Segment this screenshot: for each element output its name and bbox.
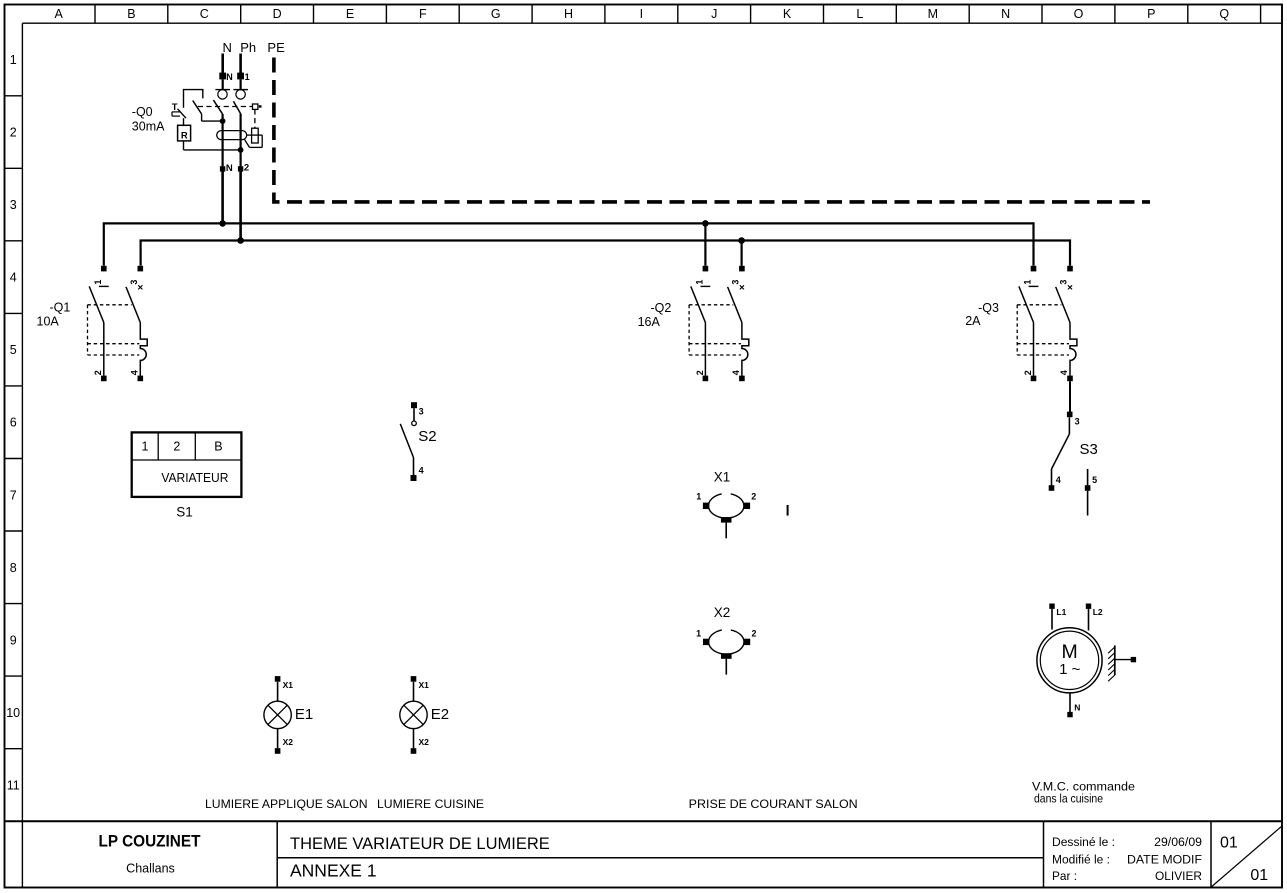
junction Ph feed on phase bus bbox=[237, 237, 244, 244]
wire -Q3 pole 1 lower bbox=[1033, 323, 1035, 376]
terminal 2 of X1 bbox=[744, 492, 757, 509]
terminal 4 of S3 bbox=[1049, 475, 1061, 491]
terminal 1 of -Q2 bbox=[694, 266, 708, 285]
svg-text:H: H bbox=[564, 7, 573, 21]
svg-text:S2: S2 bbox=[418, 428, 436, 445]
wire motor L2 stub bbox=[1088, 609, 1090, 631]
wire X1 earth stub bbox=[725, 523, 727, 539]
-Q2 pole 2 x mark bbox=[740, 285, 744, 289]
terminal 2 of -Q3 bbox=[1023, 370, 1036, 381]
wire motor L1 stub bbox=[1051, 609, 1053, 630]
svg-text:1: 1 bbox=[245, 72, 250, 82]
terminal L2 of motor bbox=[1086, 604, 1103, 618]
svg-text:N: N bbox=[226, 72, 233, 82]
wire E2 top stub bbox=[413, 682, 415, 702]
wire test bridge to N bbox=[202, 114, 223, 121]
socket outlet X2 designator bbox=[714, 605, 731, 620]
wire N terminal to contact bbox=[222, 79, 224, 89]
Q0 pole 2 fixed contact bar bbox=[233, 89, 248, 91]
terminal X1 of E2 bbox=[411, 676, 429, 690]
-Q3 pole 1 fixed contact bbox=[1029, 285, 1039, 287]
title block theme bbox=[290, 835, 550, 853]
terminal L1 of motor bbox=[1049, 604, 1066, 618]
wire S3 terminal 5 upper stub bbox=[1087, 469, 1089, 486]
svg-text:1: 1 bbox=[1023, 280, 1033, 285]
svg-text:2: 2 bbox=[244, 163, 249, 174]
-Q3 mechanism dashed box bbox=[1017, 305, 1069, 355]
svg-text:4: 4 bbox=[1059, 370, 1069, 375]
node Ph supply label bbox=[240, 40, 256, 55]
motor M1 body double circle bbox=[1037, 628, 1102, 693]
-Q3 pole 2 x mark bbox=[1068, 285, 1072, 289]
wire X2 earth stub bbox=[725, 659, 727, 675]
svg-text:S1: S1 bbox=[176, 505, 193, 520]
svg-text:01: 01 bbox=[1220, 834, 1238, 851]
svg-text:dans la cuisine: dans la cuisine bbox=[1034, 791, 1103, 805]
svg-text:P: P bbox=[1147, 7, 1155, 21]
wire S2 terminal to pivot bbox=[413, 408, 415, 421]
-Q2 pole 2 blade bbox=[728, 287, 742, 323]
-Q1 pole 2 blade bbox=[126, 287, 140, 323]
svg-text:1: 1 bbox=[696, 629, 701, 639]
S3 designator bbox=[1080, 441, 1098, 458]
X1 socket body circle bbox=[709, 492, 744, 518]
wire S3 terminal 3 stub bbox=[1068, 417, 1070, 434]
svg-text:4: 4 bbox=[731, 370, 741, 375]
-Q1 pole 1 blade bbox=[89, 286, 104, 322]
Q0 toroid current sensor bbox=[217, 131, 247, 140]
terminal 3 of -Q1 bbox=[129, 266, 143, 285]
svg-text:X2: X2 bbox=[714, 605, 731, 620]
wire phase bus bbox=[141, 241, 1070, 266]
terminal N of motor bbox=[1067, 703, 1080, 718]
wire Q0 pole 1 output bbox=[222, 114, 224, 166]
svg-text:4: 4 bbox=[10, 271, 17, 285]
lamp E1 circle with cross bbox=[264, 701, 291, 728]
Q0 trip relay coil rectangle bbox=[252, 128, 259, 143]
title block Challans bbox=[126, 862, 175, 876]
terminal X2 of E1 bbox=[275, 737, 293, 754]
wire -Q3 pole 2 thermal and magnetic elements bbox=[1070, 323, 1077, 376]
svg-text:LUMIERE APPLIQUE SALON: LUMIERE APPLIQUE SALON bbox=[205, 797, 368, 811]
svg-text:X1: X1 bbox=[419, 680, 430, 690]
node PE supply label bbox=[267, 40, 285, 55]
Q0 test button T label bbox=[172, 102, 178, 113]
lamp E1 designator bbox=[295, 706, 313, 723]
Q0 trip dashed link vertical bbox=[254, 109, 256, 128]
wire N down to bus bbox=[221, 172, 224, 224]
svg-text:S3: S3 bbox=[1080, 441, 1098, 458]
terminal 1 of X1 bbox=[696, 492, 709, 509]
terminal 4 of S2 bbox=[411, 466, 424, 482]
Q0 test button bridge wire bbox=[184, 90, 203, 108]
svg-text:1: 1 bbox=[696, 492, 701, 502]
svg-text:-Q0: -Q0 bbox=[132, 105, 153, 119]
svg-text:X1: X1 bbox=[283, 680, 294, 690]
svg-text:ANNEXE 1: ANNEXE 1 bbox=[290, 861, 377, 881]
terminal 4 of -Q1 bbox=[130, 370, 144, 381]
svg-text:Ph: Ph bbox=[240, 40, 256, 55]
wire toroid to relay bbox=[247, 134, 263, 136]
-Q3 pole 2 blade bbox=[1056, 287, 1070, 323]
breaker -Q1 label bbox=[37, 301, 71, 329]
caption prise de courant salon bbox=[689, 797, 858, 811]
svg-text:6: 6 bbox=[10, 416, 17, 430]
svg-text:N: N bbox=[226, 163, 233, 174]
S2 pivot circle bbox=[412, 421, 417, 426]
wire chassis to terminal bbox=[1115, 659, 1131, 661]
svg-text:5: 5 bbox=[1092, 475, 1097, 485]
svg-text:5: 5 bbox=[10, 343, 17, 357]
svg-text:X2: X2 bbox=[419, 737, 430, 747]
Q0 pole 1 contact circle bbox=[218, 90, 227, 99]
-Q2 pole 1 fixed contact bbox=[701, 285, 711, 287]
svg-text:L1: L1 bbox=[1056, 607, 1066, 617]
junction test bridge on N bbox=[220, 118, 226, 124]
title block folio numbers bbox=[1220, 834, 1268, 884]
wire test button to resistor bbox=[183, 118, 185, 125]
svg-text:OLIVIER: OLIVIER bbox=[1155, 869, 1202, 883]
S1 VARIATEUR label bbox=[161, 471, 228, 485]
Q0 trip sensor square bbox=[253, 104, 262, 109]
svg-text:4: 4 bbox=[1056, 475, 1061, 485]
svg-text:X2: X2 bbox=[283, 737, 294, 747]
junction Q2 on neutral bus bbox=[702, 220, 709, 227]
wire Ph feeder into Q0 bbox=[239, 54, 242, 74]
svg-text:1 ~: 1 ~ bbox=[1059, 661, 1081, 678]
motor 1~ label bbox=[1059, 661, 1081, 678]
svg-text:THEME VARIATEUR DE LUMIERE: THEME VARIATEUR DE LUMIERE bbox=[290, 835, 550, 853]
svg-text:PRISE DE COURANT SALON: PRISE DE COURANT SALON bbox=[689, 797, 858, 811]
svg-text:2: 2 bbox=[1023, 370, 1033, 375]
title block annexe bbox=[290, 861, 377, 881]
wire E1 top stub bbox=[277, 682, 279, 702]
Q0 pole 1 moving blade bbox=[213, 100, 222, 114]
Q0 pole 2 moving blade bbox=[233, 101, 240, 113]
svg-text:C: C bbox=[200, 7, 209, 21]
-Q1 mechanism dashed box bbox=[88, 305, 140, 355]
wire Q2 neutral drop bbox=[704, 223, 706, 265]
terminal 2 of -Q1 bbox=[93, 370, 106, 381]
wire motor N stub bbox=[1069, 693, 1071, 712]
X1 earth terminal bbox=[721, 517, 732, 523]
terminal N output of Q0 bbox=[220, 163, 233, 174]
wire Q0 pole 2 output bbox=[240, 114, 242, 167]
svg-text:-Q2: -Q2 bbox=[651, 301, 672, 315]
Q0 test button contact blade bbox=[178, 109, 187, 118]
terminal 3 of -Q3 bbox=[1059, 266, 1073, 285]
S1 terminal B label bbox=[214, 440, 222, 454]
wire PE dashed earth conductor bbox=[274, 58, 1150, 202]
wire Ph terminal to contact bbox=[240, 79, 242, 89]
svg-text:2: 2 bbox=[93, 370, 103, 375]
wire E1 bottom stub bbox=[277, 729, 279, 749]
svg-text:2A: 2A bbox=[965, 314, 981, 328]
chassis terminal bbox=[1131, 657, 1136, 662]
svg-text:B: B bbox=[127, 7, 135, 21]
svg-text:M: M bbox=[928, 7, 938, 21]
wire S2 blade to terminal 4 bbox=[413, 458, 415, 476]
svg-text:N: N bbox=[223, 40, 232, 55]
svg-text:J: J bbox=[711, 7, 717, 21]
X2 earth terminal bbox=[721, 653, 732, 659]
svg-text:Par :: Par : bbox=[1052, 869, 1077, 883]
svg-text:3: 3 bbox=[731, 280, 741, 285]
svg-text:3: 3 bbox=[10, 198, 17, 212]
svg-text:2: 2 bbox=[695, 370, 705, 375]
svg-text:4: 4 bbox=[419, 466, 424, 476]
svg-text:11: 11 bbox=[7, 779, 20, 793]
Q0 pole 2 contact circle bbox=[236, 90, 245, 99]
-Q3 pole 1 blade bbox=[1019, 286, 1034, 322]
S2 designator bbox=[418, 428, 436, 445]
svg-text:A: A bbox=[55, 7, 64, 21]
svg-text:N: N bbox=[1001, 7, 1010, 21]
S1 terminal 2 label bbox=[173, 440, 180, 454]
chassis earth symbol bbox=[1108, 645, 1115, 681]
svg-text:I: I bbox=[640, 7, 643, 21]
Q0 mechanism dashed link bbox=[198, 106, 253, 108]
svg-text:B: B bbox=[214, 440, 222, 454]
wire -Q1 pole 2 thermal and magnetic elements bbox=[140, 323, 147, 376]
junction Q2 on phase bus bbox=[738, 237, 745, 244]
wire N feeder into Q0 bbox=[221, 54, 224, 74]
svg-text:LP COUZINET: LP COUZINET bbox=[99, 832, 202, 851]
X2 socket body circle bbox=[709, 628, 744, 654]
svg-text:3: 3 bbox=[1059, 280, 1069, 285]
svg-text:16A: 16A bbox=[638, 315, 661, 329]
Q0 pole 1 fixed contact bar bbox=[215, 89, 230, 91]
terminal 3 of S3 bbox=[1067, 412, 1080, 427]
caption VMC commande bbox=[1032, 779, 1135, 805]
Q0 test pole blade bbox=[193, 101, 202, 115]
wire E2 bottom stub bbox=[413, 729, 415, 749]
svg-text:29/06/09: 29/06/09 bbox=[1154, 835, 1202, 849]
junction test circuit on Ph bbox=[238, 147, 244, 153]
svg-text:Challans: Challans bbox=[126, 862, 175, 876]
svg-text:10A: 10A bbox=[37, 315, 60, 329]
breaker -Q2 label bbox=[638, 301, 672, 329]
folio reference mark bbox=[787, 505, 789, 516]
node N supply label bbox=[223, 40, 232, 55]
title block LP COUZINET bbox=[99, 832, 202, 851]
svg-text:L: L bbox=[856, 7, 863, 21]
wire Q2 phase drop bbox=[740, 241, 742, 266]
terminal 3 of -Q2 bbox=[731, 266, 745, 285]
breaker -Q3 label bbox=[965, 301, 999, 328]
svg-text:VARIATEUR: VARIATEUR bbox=[161, 471, 228, 485]
svg-text:K: K bbox=[783, 7, 792, 21]
svg-text:E2: E2 bbox=[431, 706, 449, 723]
wire -Q2 pole 2 thermal and magnetic elements bbox=[742, 323, 749, 376]
svg-text:1: 1 bbox=[694, 280, 704, 285]
svg-text:-Q3: -Q3 bbox=[978, 301, 999, 315]
svg-text:F: F bbox=[419, 7, 427, 21]
-Q2 pole 1 blade bbox=[691, 286, 706, 322]
svg-text:R: R bbox=[181, 130, 188, 141]
title block frame bbox=[5, 821, 1282, 887]
-Q1 pole 2 x mark bbox=[138, 285, 142, 289]
S3 switch blade bbox=[1052, 434, 1070, 469]
S2 switch blade bbox=[400, 424, 413, 458]
svg-text:E1: E1 bbox=[295, 706, 313, 723]
svg-text:4: 4 bbox=[130, 370, 140, 375]
svg-text:1: 1 bbox=[142, 440, 149, 454]
svg-text:2: 2 bbox=[173, 440, 180, 454]
svg-text:1: 1 bbox=[10, 53, 17, 67]
wire -Q2 pole 1 lower bbox=[704, 323, 706, 376]
wire S3 terminal 5 lower stub bbox=[1087, 491, 1089, 516]
wire Ph down to bus bbox=[239, 172, 242, 241]
svg-text:Modifié le :: Modifié le : bbox=[1052, 853, 1110, 867]
terminal 1 of Q0 (pin 1) bbox=[237, 72, 249, 82]
svg-text:10: 10 bbox=[6, 706, 20, 720]
terminal 2 of X2 bbox=[744, 629, 757, 646]
terminal 1 of -Q1 bbox=[93, 266, 107, 285]
Q0 test push button actuator bbox=[172, 112, 180, 116]
svg-text:30mA: 30mA bbox=[132, 120, 165, 134]
lamp E2 circle with cross bbox=[400, 701, 427, 728]
terminal 4 of -Q3 bbox=[1059, 370, 1073, 381]
RCD breaker -Q0 30mA label bbox=[132, 105, 165, 133]
terminal X1 of E1 bbox=[275, 676, 293, 690]
svg-text:1: 1 bbox=[93, 280, 103, 285]
svg-text:X1: X1 bbox=[714, 470, 731, 485]
terminal X2 of E2 bbox=[411, 737, 429, 754]
svg-text:E: E bbox=[346, 7, 354, 21]
svg-text:7: 7 bbox=[10, 488, 17, 502]
lamp E2 designator bbox=[431, 706, 449, 723]
terminal 1 of -Q3 bbox=[1023, 266, 1037, 285]
svg-text:O: O bbox=[1074, 7, 1084, 21]
svg-text:2: 2 bbox=[10, 126, 17, 140]
wire S3 blade to terminal 4 bbox=[1051, 469, 1053, 486]
Q0 test resistor R bbox=[178, 125, 191, 141]
svg-text:DATE MODIF: DATE MODIF bbox=[1127, 853, 1202, 867]
svg-text:G: G bbox=[491, 7, 501, 21]
svg-text:01: 01 bbox=[1250, 867, 1268, 884]
-Q1 pole 1 fixed contact bbox=[99, 285, 109, 287]
wire resistor to bottom bbox=[183, 141, 185, 150]
wire -Q1 pole 1 lower bbox=[103, 323, 105, 376]
-Q2 mechanism dashed box bbox=[689, 305, 741, 355]
svg-text:Dessiné le :: Dessiné le : bbox=[1052, 835, 1115, 849]
svg-text:9: 9 bbox=[10, 633, 17, 647]
S1 designator bbox=[176, 505, 193, 520]
terminal 1 of X2 bbox=[696, 629, 709, 646]
terminal 2 output of Q0 bbox=[238, 163, 249, 174]
svg-text:2: 2 bbox=[752, 629, 757, 639]
motor M label bbox=[1061, 641, 1077, 663]
S1 terminal 1 label bbox=[142, 440, 149, 454]
svg-text:-Q1: -Q1 bbox=[50, 301, 71, 315]
svg-text:LUMIERE CUISINE: LUMIERE CUISINE bbox=[377, 797, 484, 811]
svg-text:M: M bbox=[1061, 641, 1077, 663]
wire test circuit return bbox=[184, 149, 241, 151]
terminal 3 of S2 bbox=[411, 402, 424, 416]
wire Q3 output to S3 bbox=[1069, 381, 1071, 412]
terminal N of Q0 (pin N) bbox=[219, 72, 233, 82]
svg-text:N: N bbox=[1074, 703, 1080, 713]
caption lumiere applique salon bbox=[205, 797, 368, 811]
svg-text:3: 3 bbox=[419, 406, 424, 416]
svg-text:3: 3 bbox=[129, 280, 139, 285]
title block dates bbox=[1052, 835, 1202, 883]
svg-text:8: 8 bbox=[10, 561, 17, 575]
terminal 4 of -Q2 bbox=[731, 370, 745, 381]
socket outlet X1 designator bbox=[714, 470, 731, 485]
dimmer control S1 box bbox=[132, 432, 242, 497]
svg-text:Q: Q bbox=[1219, 7, 1229, 21]
svg-text:D: D bbox=[273, 7, 282, 21]
junction N feed on neutral bus bbox=[219, 220, 226, 227]
svg-text:2: 2 bbox=[751, 492, 756, 502]
terminal 5 of S3 bbox=[1085, 475, 1097, 491]
Q0 relay output flag bbox=[244, 135, 262, 147]
svg-text:3: 3 bbox=[1075, 417, 1080, 427]
svg-text:PE: PE bbox=[267, 40, 285, 55]
caption lumiere cuisine bbox=[377, 797, 484, 811]
wire neutral bus bbox=[104, 223, 1034, 265]
terminal 2 of -Q2 bbox=[695, 370, 708, 381]
svg-text:L2: L2 bbox=[1093, 607, 1103, 617]
